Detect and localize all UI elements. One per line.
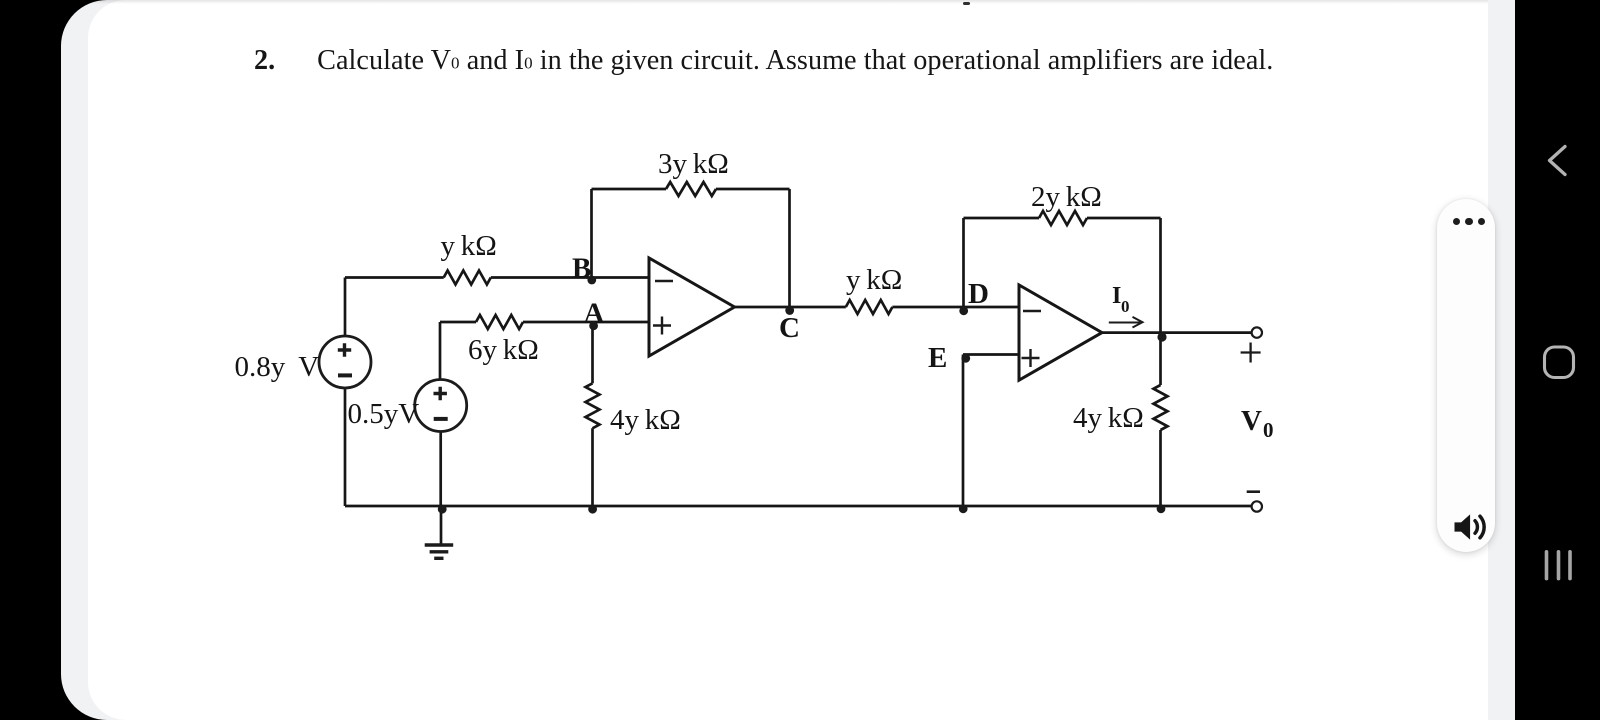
output junction dot	[1157, 332, 1166, 341]
wire: y kOhm to node D and op-amp U2 inverting input	[892, 306, 1019, 309]
svg-text:2y kΩ: 2y kΩ	[1031, 181, 1102, 213]
resistor 3y kOhm	[666, 182, 716, 196]
svg-text:4y kΩ: 4y kΩ	[1073, 402, 1144, 434]
wire: feedback 1 top left segment	[592, 188, 667, 191]
wire: node E down to bottom rail	[962, 355, 965, 507]
wire: bottom rail	[345, 505, 1252, 508]
bottom rail junction dot (ground)	[438, 505, 447, 514]
svg-text:0.8y V: 0.8y V	[235, 351, 320, 383]
wire: node B to op-amp U1 inverting input	[592, 276, 650, 279]
wire: corner to 6y kOhm resistor	[440, 321, 476, 324]
wire: feedback 1 right vertical (to node C)	[788, 189, 791, 307]
svg-text:0: 0	[1121, 297, 1130, 316]
wire: left source to y kOhm resistor	[345, 276, 444, 279]
pill menu dot 3	[1478, 218, 1485, 225]
svg-text:I: I	[1112, 283, 1121, 309]
current I0 arrow	[1109, 317, 1143, 328]
svg-text:D: D	[968, 278, 989, 310]
ground bar 2	[430, 550, 449, 553]
op-amp U1 plus sign	[653, 317, 671, 335]
svg-text:4y kΩ: 4y kΩ	[610, 404, 681, 436]
wire: 6y kOhm to node A	[523, 321, 594, 324]
wire: feedback 2 right vertical down to output	[1159, 218, 1162, 333]
wire: output junction down to 4y kOhm	[1159, 333, 1162, 385]
output terminal - (open circle)	[1252, 501, 1262, 511]
ground stem	[440, 506, 443, 545]
wire: below source V1 to bottom rail	[344, 388, 347, 506]
nav home squircle	[1539, 342, 1579, 382]
ground bar 3	[434, 557, 443, 560]
bottom rail junction dot (4y kOhm left)	[588, 505, 597, 514]
bottom rail junction dot (E branch)	[959, 504, 968, 513]
svg-text:V: V	[1241, 405, 1262, 437]
ground bar 1	[425, 543, 454, 546]
nav back chevron	[1541, 143, 1577, 179]
problem title text	[254, 43, 1273, 79]
speaker icon	[1449, 505, 1493, 549]
svg-text:0.5yV: 0.5yV	[348, 398, 420, 430]
svg-text:B: B	[572, 253, 591, 285]
wire: feedback 1 top right segment	[716, 188, 790, 191]
svg-text:6y kΩ: 6y kΩ	[468, 334, 539, 366]
wire: 6y kOhm left corner vertical down to source V2	[439, 322, 442, 380]
top scroll dash	[963, 2, 970, 5]
node C junction dot	[785, 306, 794, 315]
op-amp U1 output wire to node C and y kOhm	[735, 306, 846, 309]
resistor 2y kOhm	[1039, 211, 1087, 225]
op-amp U2 plus sign	[1022, 349, 1040, 367]
output - sign	[1247, 490, 1260, 493]
op-amp U2 minus sign	[1023, 310, 1041, 312]
resistor 4y kOhm (left, vertical)	[586, 383, 600, 428]
output + sign	[1241, 343, 1261, 363]
wire: below source V2 to bottom rail	[439, 431, 442, 506]
svg-text:y kΩ: y kΩ	[441, 230, 497, 262]
svg-text:A: A	[584, 298, 605, 330]
wire: feedback 2 left vertical (D up)	[962, 218, 965, 307]
node E junction dot	[961, 354, 970, 363]
voltage source V2 0.5y V	[415, 380, 467, 432]
op-amp U1	[649, 258, 735, 356]
resistor 6y kOhm	[476, 315, 523, 329]
resistor y kOhm (between C and D)	[846, 300, 893, 314]
wire: feedback 1 left vertical (B to top)	[590, 189, 593, 278]
svg-text:0: 0	[1263, 418, 1274, 442]
wire: feedback 2 top left segment	[964, 217, 1040, 220]
wire: op-amp U2 output to + terminal	[1102, 331, 1252, 334]
op-amp U1 minus sign	[655, 280, 673, 282]
resistor 4y kOhm (right, vertical)	[1154, 385, 1168, 430]
svg-text:y kΩ: y kΩ	[846, 264, 902, 296]
output terminal + (open circle)	[1252, 327, 1262, 337]
svg-text:E: E	[928, 342, 947, 374]
nav recents bars	[1538, 550, 1578, 590]
floating tool pill	[1437, 199, 1495, 552]
svg-text:C: C	[779, 312, 800, 344]
node A junction dot	[589, 321, 598, 330]
pill menu dot 2	[1465, 218, 1472, 225]
node D junction dot	[959, 306, 968, 315]
voltage source V1 0.8y V	[319, 336, 371, 388]
node B junction dot	[587, 276, 596, 285]
wire: feedback 2 top right segment	[1087, 217, 1161, 220]
wire: node A to op-amp U1 non-inverting input	[594, 321, 650, 324]
wire: y kOhm to node B	[491, 276, 592, 279]
svg-text:3y kΩ: 3y kΩ	[658, 148, 729, 180]
resistor y kOhm (input)	[444, 271, 491, 285]
wire: node E to op-amp U2 non-inverting input	[963, 353, 1019, 356]
bottom rail junction dot (4y kOhm right)	[1157, 504, 1166, 513]
pill menu dot 1	[1453, 218, 1460, 225]
wire: 4y kOhm to bottom rail	[591, 428, 594, 506]
wire: left vertical from y kOhm down to source V1	[344, 278, 347, 337]
wire: 4y kOhm to bottom rail	[1159, 430, 1162, 506]
wire: node A down to 4y kOhm resistor	[591, 322, 594, 383]
op-amp U2	[1019, 285, 1102, 380]
